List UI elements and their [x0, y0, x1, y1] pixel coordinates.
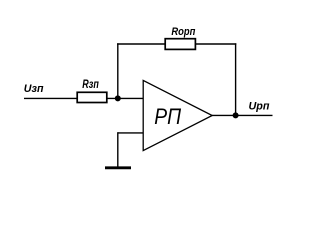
- wire input horizontal Uзп to op-amp: [24, 97, 144, 99]
- svg-text:Rзп: Rзп: [82, 77, 99, 91]
- wire vertical feedback left (junction up to top rail): [117, 43, 119, 98]
- wire output (apex to right edge): [212, 114, 273, 116]
- wire vertical feedback right (top rail down to output node): [235, 43, 237, 115]
- wire bottom input horizontal: [118, 132, 144, 134]
- svg-text:Rорп: Rорп: [171, 26, 195, 38]
- wire ground vertical: [117, 132, 119, 167]
- resistor R1 Rзп box: [77, 92, 107, 102]
- wire top feedback horizontal rail: [117, 43, 236, 45]
- ground: [105, 166, 131, 169]
- op-amp U1 triangle: [143, 80, 212, 150]
- svg-text:Uрп: Uрп: [249, 100, 270, 112]
- resistor R2 Rорп box: [165, 39, 195, 50]
- svg-text:Uзп: Uзп: [24, 83, 44, 95]
- node A input junction dot: [115, 95, 121, 101]
- svg-text:РП: РП: [154, 104, 181, 129]
- node B output junction dot: [233, 112, 239, 118]
